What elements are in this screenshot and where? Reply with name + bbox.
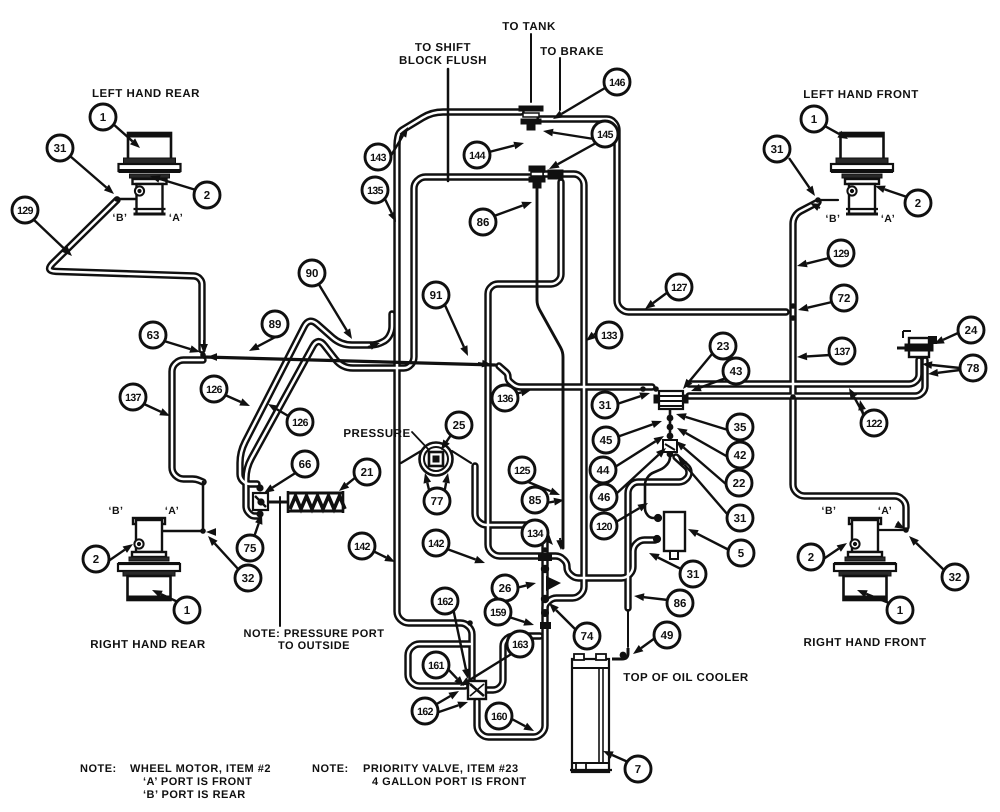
svg-text:NOTE:: NOTE: — [312, 763, 349, 775]
svg-text:146: 146 — [609, 77, 625, 89]
svg-text:142: 142 — [428, 538, 444, 550]
svg-text:142: 142 — [354, 541, 370, 553]
svg-text:1: 1 — [811, 114, 818, 126]
svg-text:TO OUTSIDE: TO OUTSIDE — [278, 640, 350, 652]
svg-text:NOTE: PRESSURE PORT: NOTE: PRESSURE PORT — [244, 628, 385, 640]
svg-text:TO SHIFT: TO SHIFT — [415, 42, 471, 54]
svg-text:TO TANK: TO TANK — [502, 21, 556, 33]
svg-text:25: 25 — [453, 420, 466, 432]
svg-text:‘B’: ‘B’ — [113, 212, 128, 224]
svg-text:2: 2 — [808, 552, 814, 564]
svg-text:129: 129 — [833, 248, 849, 260]
svg-text:1: 1 — [897, 605, 904, 617]
svg-text:31: 31 — [54, 143, 67, 155]
svg-text:144: 144 — [469, 150, 485, 162]
svg-text:‘B’: ‘B’ — [822, 505, 837, 517]
svg-text:1: 1 — [100, 112, 107, 124]
svg-text:22: 22 — [733, 478, 746, 490]
svg-text:32: 32 — [242, 573, 255, 585]
svg-text:2: 2 — [93, 554, 99, 566]
svg-text:‘B’: ‘B’ — [109, 505, 124, 517]
svg-text:72: 72 — [838, 293, 851, 305]
svg-text:125: 125 — [514, 465, 530, 477]
svg-text:RIGHT HAND FRONT: RIGHT HAND FRONT — [804, 637, 927, 649]
svg-text:NOTE:: NOTE: — [80, 763, 117, 775]
svg-text:136: 136 — [497, 393, 513, 405]
svg-text:24: 24 — [965, 325, 978, 337]
svg-text:35: 35 — [734, 422, 747, 434]
svg-text:159: 159 — [490, 607, 506, 619]
svg-text:‘A’: ‘A’ — [881, 213, 895, 225]
svg-text:32: 32 — [949, 572, 962, 584]
svg-text:133: 133 — [601, 330, 617, 342]
svg-text:PRIORITY VALVE, ITEM #23: PRIORITY VALVE, ITEM #23 — [363, 763, 519, 775]
svg-text:42: 42 — [734, 450, 747, 462]
svg-text:23: 23 — [717, 341, 730, 353]
svg-text:LEFT HAND FRONT: LEFT HAND FRONT — [803, 89, 918, 101]
svg-text:5: 5 — [738, 548, 745, 560]
svg-text:78: 78 — [967, 363, 980, 375]
svg-text:31: 31 — [687, 569, 700, 581]
svg-text:91: 91 — [430, 290, 443, 302]
svg-text:66: 66 — [299, 459, 312, 471]
svg-text:2: 2 — [204, 190, 210, 202]
svg-text:49: 49 — [661, 630, 674, 642]
svg-text:86: 86 — [477, 217, 490, 229]
svg-text:BLOCK FLUSH: BLOCK FLUSH — [399, 55, 487, 67]
svg-text:77: 77 — [431, 496, 444, 508]
svg-text:45: 45 — [600, 435, 613, 447]
svg-text:137: 137 — [125, 392, 141, 404]
svg-text:163: 163 — [512, 639, 528, 651]
svg-text:162: 162 — [417, 706, 433, 718]
svg-text:74: 74 — [581, 631, 594, 643]
svg-text:120: 120 — [596, 521, 612, 533]
svg-text:161: 161 — [428, 660, 444, 672]
svg-text:143: 143 — [370, 152, 386, 164]
svg-text:135: 135 — [367, 185, 383, 197]
svg-text:4 GALLON PORT IS FRONT: 4 GALLON PORT IS FRONT — [372, 776, 527, 788]
svg-text:‘B’ PORT IS REAR: ‘B’ PORT IS REAR — [143, 789, 246, 801]
svg-text:127: 127 — [671, 282, 687, 294]
svg-text:85: 85 — [529, 495, 542, 507]
svg-text:31: 31 — [599, 400, 612, 412]
svg-text:46: 46 — [598, 492, 611, 504]
svg-text:31: 31 — [734, 513, 747, 525]
svg-text:43: 43 — [730, 366, 743, 378]
svg-text:44: 44 — [597, 465, 610, 477]
svg-text:7: 7 — [635, 764, 641, 776]
svg-text:PRESSURE: PRESSURE — [343, 428, 410, 440]
svg-text:86: 86 — [674, 598, 687, 610]
svg-text:2: 2 — [915, 198, 921, 210]
svg-text:‘A’: ‘A’ — [169, 212, 183, 224]
svg-text:137: 137 — [834, 346, 850, 358]
svg-text:129: 129 — [17, 205, 33, 217]
svg-text:‘B’: ‘B’ — [826, 213, 841, 225]
svg-text:63: 63 — [147, 330, 160, 342]
svg-text:26: 26 — [499, 583, 512, 595]
svg-text:160: 160 — [491, 711, 507, 723]
svg-text:75: 75 — [244, 543, 257, 555]
svg-text:TO BRAKE: TO BRAKE — [540, 46, 604, 58]
svg-text:‘A’: ‘A’ — [878, 505, 892, 517]
svg-text:WHEEL MOTOR, ITEM #2: WHEEL MOTOR, ITEM #2 — [130, 763, 271, 775]
svg-text:‘A’: ‘A’ — [165, 505, 179, 517]
svg-text:31: 31 — [771, 144, 784, 156]
svg-text:TOP OF OIL COOLER: TOP OF OIL COOLER — [623, 672, 749, 684]
svg-text:134: 134 — [527, 528, 543, 540]
svg-text:1: 1 — [184, 605, 191, 617]
svg-text:122: 122 — [866, 418, 882, 430]
svg-text:90: 90 — [306, 268, 319, 280]
svg-text:145: 145 — [597, 129, 613, 141]
svg-text:‘A’ PORT IS FRONT: ‘A’ PORT IS FRONT — [143, 776, 252, 788]
svg-text:RIGHT HAND REAR: RIGHT HAND REAR — [90, 639, 206, 651]
svg-text:126: 126 — [292, 417, 308, 429]
svg-text:LEFT HAND REAR: LEFT HAND REAR — [92, 88, 200, 100]
svg-text:89: 89 — [269, 319, 282, 331]
svg-text:21: 21 — [361, 467, 374, 479]
svg-text:162: 162 — [437, 596, 453, 608]
svg-text:126: 126 — [206, 384, 222, 396]
